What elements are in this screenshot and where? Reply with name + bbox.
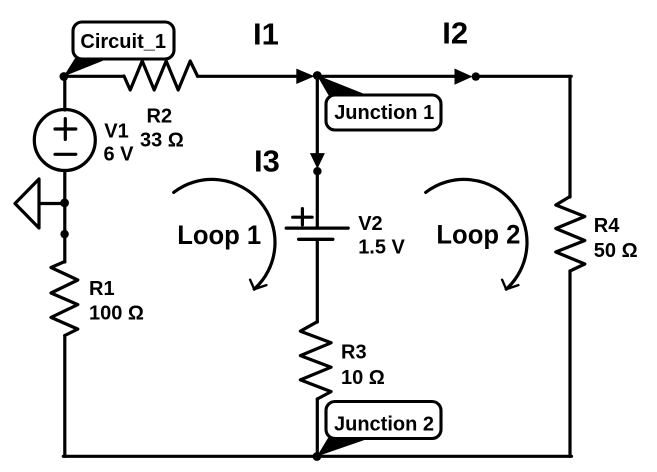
svg-text:Circuit_1: Circuit_1 — [80, 31, 166, 53]
wire I2 dot to top-right corner — [476, 75, 571, 78]
svg-text:V1: V1 — [104, 120, 128, 142]
V2 plus sign — [293, 209, 312, 225]
svg-text:R1: R1 — [89, 278, 115, 300]
svg-text:I3: I3 — [254, 144, 280, 179]
wire I3 dot to battery — [316, 171, 319, 227]
wire top-left node to V1 — [63, 76, 66, 110]
battery V2 positive plate — [286, 227, 348, 230]
svg-text:50 Ω: 50 Ω — [594, 240, 638, 262]
svg-text:Junction 2: Junction 2 — [334, 414, 434, 436]
resistor R2 — [124, 61, 198, 90]
node I2 dot — [472, 72, 480, 80]
loop 1 arrow arc — [174, 179, 275, 289]
node ground tap — [60, 199, 69, 208]
wire top left segment — [63, 75, 124, 78]
svg-text:100 Ω: 100 Ω — [89, 302, 144, 324]
svg-text:I1: I1 — [253, 16, 279, 51]
node junction 2 — [313, 452, 322, 461]
callout box Junction 1 — [326, 95, 441, 130]
node junction 1 — [313, 71, 322, 80]
loop 2 arrowhead — [502, 280, 518, 290]
battery V2 negative plate — [299, 238, 333, 241]
node top-left — [60, 72, 69, 81]
svg-text:10 Ω: 10 Ω — [341, 367, 385, 389]
wire R2 to junction 1 — [198, 75, 299, 78]
svg-text:1.5 V: 1.5 V — [358, 237, 405, 259]
svg-text:Loop 2: Loop 2 — [436, 219, 520, 249]
wire right side lower — [568, 271, 571, 456]
svg-text:I2: I2 — [442, 16, 468, 51]
callout pointer Junction 1 — [317, 75, 371, 97]
wire R3 to junction 2 — [316, 399, 319, 456]
resistor R1 — [51, 262, 78, 336]
svg-text:R4: R4 — [594, 215, 620, 237]
callout pointer Junction 2 — [317, 438, 372, 457]
ground — [15, 179, 65, 228]
svg-text:R2: R2 — [147, 105, 173, 127]
voltage source V1 — [34, 110, 95, 171]
arrow I1 — [296, 69, 314, 84]
node below ground tap — [60, 230, 68, 238]
loop 1 arrowhead — [250, 280, 266, 290]
wire junction 1 to I2 arrow — [317, 75, 456, 78]
wire battery to R3 — [316, 239, 319, 322]
wire junction 1 down to I3 arrow — [316, 76, 319, 154]
loop 2 arrow arc — [426, 179, 527, 289]
wire bottom — [63, 455, 571, 458]
svg-text:V2: V2 — [358, 213, 382, 235]
wire right side upper — [568, 76, 571, 197]
resistor R4 — [556, 197, 585, 272]
svg-text:R3: R3 — [341, 342, 367, 364]
V1 plus sign — [55, 119, 76, 140]
svg-text:6 V: 6 V — [104, 144, 135, 166]
arrow I3 — [310, 153, 325, 169]
callout box Circuit_1 — [73, 22, 174, 59]
arrow I2 — [455, 69, 473, 85]
V1 minus sign — [55, 153, 76, 156]
wire V1 to R1 — [63, 171, 66, 263]
svg-text:33 Ω: 33 Ω — [140, 129, 184, 151]
node I3 dot — [313, 167, 321, 175]
svg-text:Loop 1: Loop 1 — [177, 220, 261, 250]
resistor R3 — [300, 322, 331, 399]
svg-text:Junction 1: Junction 1 — [334, 102, 434, 124]
callout pointer Circuit_1 — [64, 58, 112, 77]
wire R1 to bottom — [63, 336, 66, 457]
callout box Junction 2 — [326, 402, 441, 439]
